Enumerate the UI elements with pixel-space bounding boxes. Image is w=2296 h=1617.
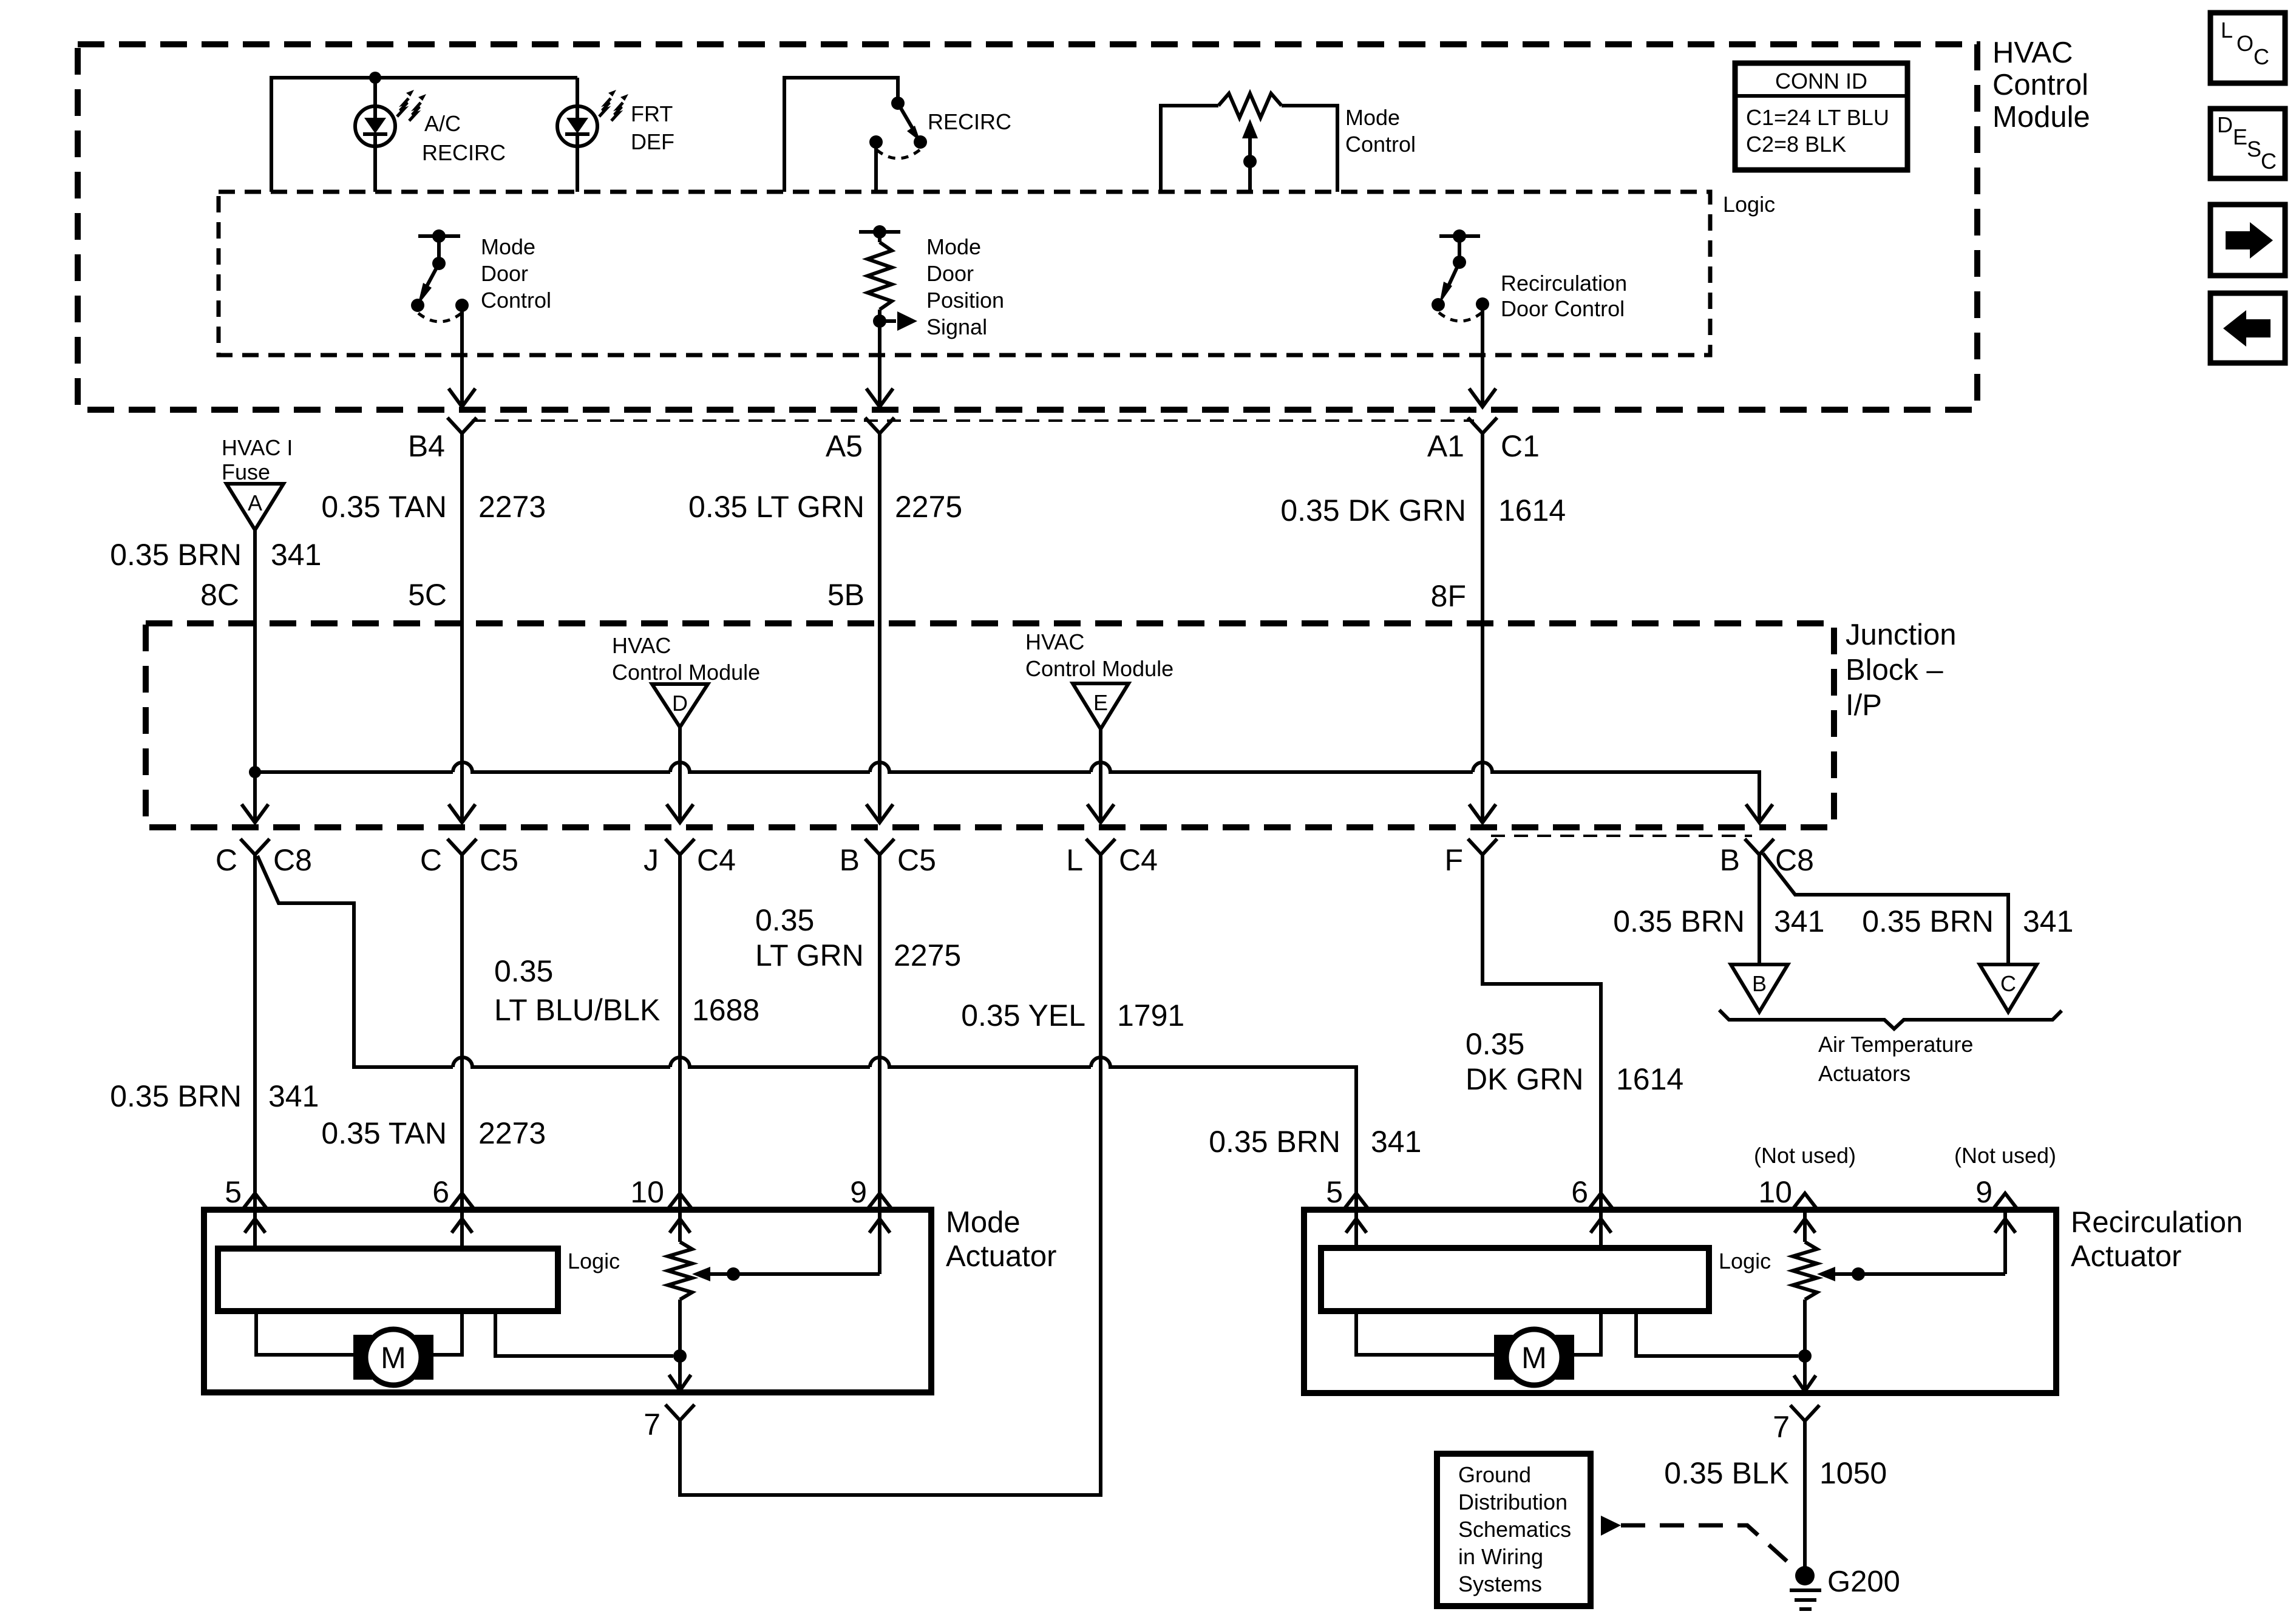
Junction Block dashed box — [146, 623, 1834, 827]
svg-text:C4: C4 — [697, 843, 736, 877]
svg-text:2275: 2275 — [895, 490, 962, 524]
Mode Actuator box — [204, 1210, 931, 1392]
triangle B — [1731, 964, 1788, 1012]
svg-text:Actuators: Actuators — [1818, 1061, 1911, 1086]
svg-text:J: J — [644, 843, 659, 877]
svg-text:5B: 5B — [827, 578, 864, 612]
recirc actuator potentiometer — [1793, 1242, 1817, 1300]
svg-text:0.35 YEL: 0.35 YEL — [961, 998, 1085, 1032]
svg-text:0.35 TAN: 0.35 TAN — [321, 1116, 447, 1150]
svg-text:Logic: Logic — [1723, 192, 1775, 217]
svg-text:M: M — [381, 1341, 406, 1375]
wire C8 through junction block — [253, 772, 257, 819]
svg-text:LT GRN: LT GRN — [755, 938, 864, 972]
svg-text:0.35 BRN: 0.35 BRN — [110, 1079, 242, 1113]
svg-text:C2=8 BLK: C2=8 BLK — [1746, 132, 1846, 157]
mode pot ground wire — [678, 1356, 682, 1389]
svg-text:Position: Position — [926, 288, 1004, 313]
svg-text:0.35 BRN: 0.35 BRN — [1613, 904, 1745, 938]
svg-text:Air Temperature: Air Temperature — [1818, 1032, 1973, 1057]
svg-text:C: C — [216, 843, 237, 877]
RECIRC switch — [891, 97, 905, 110]
svg-text:DK GRN: DK GRN — [1466, 1062, 1583, 1096]
svg-text:Recirculation: Recirculation — [2071, 1206, 2243, 1239]
svg-text:HVAC: HVAC — [1025, 629, 1084, 654]
Mode Door Control switch — [418, 234, 460, 238]
svg-text:8F: 8F — [1431, 579, 1466, 613]
air temperature actuators brace — [1719, 1010, 2062, 1029]
Recirculation Door Control switch — [1439, 234, 1480, 238]
svg-text:Logic: Logic — [568, 1249, 620, 1273]
recirc pot ground wire — [1803, 1356, 1807, 1390]
svg-text:Logic: Logic — [1719, 1249, 1771, 1273]
svg-text:F: F — [1444, 843, 1463, 877]
svg-text:5: 5 — [1326, 1175, 1343, 1209]
connector B C8 (right) — [1745, 839, 1774, 855]
svg-text:Door: Door — [481, 261, 528, 286]
svg-text:HVAC I: HVAC I — [222, 435, 293, 460]
wire 0.35 DK GRN 1614 (A1 to junction block) — [1481, 432, 1484, 772]
RECIRC switch feed wire — [784, 78, 898, 192]
wire 0.35 YEL 1791 (C4 to mode actuator pin 7) — [680, 853, 1101, 1495]
LOC box — [2210, 13, 2285, 83]
svg-text:Module: Module — [1992, 101, 2090, 134]
connector J C4 — [665, 839, 695, 855]
svg-text:8C: 8C — [200, 578, 239, 612]
svg-text:C: C — [2254, 44, 2269, 69]
wire C4 (E) through junction block — [1099, 772, 1102, 819]
svg-text:9: 9 — [1975, 1175, 1992, 1209]
ground reference dashed arrow — [1601, 1516, 1621, 1536]
svg-text:341: 341 — [268, 1079, 319, 1113]
svg-text:341: 341 — [1371, 1125, 1421, 1159]
svg-text:B: B — [840, 843, 860, 877]
svg-text:0.35 BRN: 0.35 BRN — [1209, 1125, 1340, 1159]
wire 0.35 BRN 341 (fuse to junction block) — [253, 530, 257, 772]
svg-text:C: C — [420, 843, 442, 877]
triangle D — [652, 684, 708, 727]
recirc motor — [1494, 1335, 1513, 1380]
svg-text:C5: C5 — [897, 843, 936, 877]
svg-text:C5: C5 — [480, 843, 518, 877]
HVAC Control Module outer dashed box — [78, 44, 1977, 410]
bus junction dot — [249, 766, 261, 778]
svg-text:CONN ID: CONN ID — [1775, 69, 1867, 93]
wire 0.35 DK GRN 1614 (F to recirc actuator pin 6) — [1483, 853, 1601, 1210]
svg-text:C1: C1 — [1501, 429, 1540, 463]
svg-text:1614: 1614 — [1498, 493, 1566, 527]
svg-text:1688: 1688 — [692, 993, 759, 1027]
svg-text:C8: C8 — [273, 843, 312, 877]
svg-text:LT BLU/BLK: LT BLU/BLK — [494, 993, 660, 1027]
connector A1 C1 — [1468, 418, 1497, 433]
CONN ID table — [1735, 63, 1907, 170]
svg-text:7: 7 — [1773, 1410, 1790, 1444]
connector F — [1468, 839, 1497, 855]
svg-text:D: D — [2217, 112, 2233, 137]
svg-text:1614: 1614 — [1616, 1062, 1683, 1096]
svg-text:10: 10 — [1758, 1175, 1792, 1209]
svg-text:Control Module: Control Module — [612, 660, 760, 685]
svg-text:0.35 BLK: 0.35 BLK — [1664, 1456, 1789, 1490]
svg-text:(Not used): (Not used) — [1954, 1143, 2056, 1168]
svg-text:C8: C8 — [1775, 843, 1814, 877]
svg-text:Mode: Mode — [481, 234, 535, 259]
svg-text:M: M — [1521, 1341, 1547, 1375]
svg-text:C: C — [2261, 149, 2277, 174]
wire 0.35 TAN 2273 (B4 to junction block) — [460, 432, 464, 772]
Mode Control potentiometer — [1161, 106, 1218, 192]
wire 0.35 BLK 1050 (recirc pin 7 to G200) — [1803, 1420, 1807, 1567]
svg-text:341: 341 — [271, 538, 321, 572]
wire 0.35 LT BLU/BLK 1688 (C4 to mode actuator pin 10) — [678, 853, 682, 1210]
connector B C5 — [865, 839, 894, 855]
svg-text:RECIRC: RECIRC — [928, 109, 1011, 134]
svg-text:C1=24 LT BLU: C1=24 LT BLU — [1746, 105, 1889, 130]
svg-text:6: 6 — [1571, 1175, 1588, 1209]
ground G200 symbol — [1795, 1566, 1815, 1585]
svg-text:HVAC: HVAC — [1992, 36, 2073, 69]
svg-text:Control Module: Control Module — [1025, 656, 1173, 681]
Mode Door Position Signal resistor — [859, 230, 900, 234]
svg-text:O: O — [2237, 31, 2254, 56]
wire 0.35 BRN 341 (C8 to mode actuator pin 5) — [253, 853, 257, 1210]
wire triangle D to bus — [678, 727, 682, 772]
svg-text:C4: C4 — [1119, 843, 1158, 877]
mode pot bottom junction — [673, 1349, 687, 1363]
mode motor return wire — [495, 1311, 673, 1356]
svg-text:0.35 TAN: 0.35 TAN — [321, 490, 447, 524]
module connector strip (thin dashed) — [472, 419, 1474, 422]
svg-text:1791: 1791 — [1117, 998, 1184, 1032]
connector L C4 — [1086, 839, 1115, 855]
svg-text:Control: Control — [1345, 132, 1416, 157]
svg-text:0.35: 0.35 — [1466, 1027, 1524, 1061]
svg-text:0.35 DK GRN: 0.35 DK GRN — [1280, 493, 1466, 527]
recirc pot bottom junction — [1798, 1349, 1812, 1363]
svg-text:Schematics: Schematics — [1458, 1517, 1571, 1542]
wire mode door position to A5 — [878, 321, 881, 405]
svg-text:B: B — [1720, 843, 1740, 877]
svg-text:Mode: Mode — [1345, 105, 1400, 130]
svg-text:Control: Control — [481, 288, 551, 313]
fuse triangle A — [226, 484, 284, 530]
back arrow box — [2210, 293, 2285, 363]
wire recirc door control to A1 — [1481, 304, 1484, 405]
svg-text:Block –: Block – — [1846, 654, 1943, 686]
mode pot wiper — [699, 1272, 880, 1276]
svg-text:B4: B4 — [408, 429, 445, 463]
wire LED supply rail — [271, 78, 577, 192]
wire 0.35 BRN 341 branch (C8 to recirc actuator pin 5) — [257, 856, 1356, 1210]
svg-text:DEF: DEF — [631, 129, 674, 154]
svg-text:FRT: FRT — [631, 101, 673, 126]
wire 0.35 TAN 2273 (C5 to mode actuator pin 6) — [460, 853, 464, 1210]
svg-text:9: 9 — [850, 1175, 867, 1209]
svg-text:Actuator: Actuator — [2071, 1240, 2181, 1273]
mode pin 7 connector — [665, 1405, 695, 1420]
svg-text:5C: 5C — [408, 578, 447, 612]
wire F through junction block — [1481, 772, 1484, 819]
junction block bus wire — [255, 762, 1759, 821]
svg-text:A1: A1 — [1427, 429, 1464, 463]
wire B C8 to triangle B — [1758, 853, 1761, 964]
svg-text:Actuator: Actuator — [946, 1240, 1056, 1273]
svg-text:1050: 1050 — [1819, 1456, 1887, 1490]
svg-text:2275: 2275 — [894, 938, 961, 972]
svg-text:in Wiring: in Wiring — [1458, 1544, 1543, 1569]
svg-text:HVAC: HVAC — [612, 633, 671, 658]
svg-text:C: C — [2000, 971, 2016, 996]
svg-text:2273: 2273 — [478, 490, 546, 524]
svg-text:Junction: Junction — [1846, 619, 1957, 651]
junction block connector strip left (thin dashed) — [1491, 835, 1752, 837]
forward arrow box — [2210, 205, 2285, 276]
DESC box — [2210, 109, 2285, 178]
recirc motor return wire — [1636, 1311, 1798, 1356]
wire B C8 branch to triangle C — [1763, 853, 2008, 964]
svg-text:2273: 2273 — [478, 1116, 546, 1150]
Ground Distribution Schematics box — [1437, 1454, 1591, 1606]
svg-text:341: 341 — [1774, 904, 1824, 938]
svg-text:I/P: I/P — [1846, 689, 1882, 722]
wire mode door control to B4 — [460, 305, 464, 405]
svg-text:0.35: 0.35 — [755, 903, 814, 937]
svg-text:G200: G200 — [1827, 1565, 1900, 1598]
svg-text:0.35 BRN: 0.35 BRN — [110, 538, 242, 572]
Recirculation Actuator box — [1304, 1210, 2056, 1393]
mode actuator potentiometer — [668, 1242, 692, 1300]
svg-text:0.35 LT GRN: 0.35 LT GRN — [688, 490, 864, 524]
svg-text:Control: Control — [1992, 69, 2088, 101]
recirc motor right wire — [1574, 1311, 1601, 1355]
mode motor right wire — [433, 1311, 462, 1355]
svg-text:Ground: Ground — [1458, 1462, 1531, 1487]
svg-text:10: 10 — [630, 1175, 664, 1209]
svg-text:RECIRC: RECIRC — [422, 140, 506, 165]
recirc pin 7 connector — [1790, 1405, 1819, 1421]
connector C C8 — [240, 839, 270, 855]
connector C C5 — [447, 839, 477, 855]
svg-text:341: 341 — [2023, 904, 2073, 938]
wire B C8 exit arrow — [1746, 804, 1773, 822]
LED A/C RECIRC — [355, 106, 395, 146]
wire 0.35 LT GRN 2275 (A5 to junction block) — [878, 432, 881, 772]
wire C4 (D) through junction block — [678, 772, 682, 819]
svg-text:Door Control: Door Control — [1501, 296, 1625, 321]
junction node on rail — [369, 72, 381, 84]
svg-text:5: 5 — [225, 1175, 242, 1209]
svg-text:B: B — [1752, 971, 1767, 996]
wire C5 through junction block — [460, 772, 464, 819]
connector A5 — [865, 418, 894, 433]
svg-text:L: L — [2221, 18, 2233, 42]
svg-text:Fuse: Fuse — [222, 459, 270, 484]
svg-text:(Not used): (Not used) — [1754, 1143, 1856, 1168]
svg-text:S: S — [2247, 137, 2261, 161]
wire 0.35 LT GRN 2275 (C5 to mode actuator pin 9) — [878, 853, 881, 1210]
recirc pot wiper — [1824, 1272, 2005, 1276]
triangle E — [1073, 683, 1129, 729]
triangle C — [1980, 964, 2037, 1012]
connector B4 — [447, 418, 477, 433]
svg-text:A/C: A/C — [424, 111, 461, 136]
svg-text:L: L — [1066, 843, 1083, 877]
svg-text:Mode: Mode — [926, 234, 981, 259]
svg-text:Systems: Systems — [1458, 1571, 1542, 1596]
svg-text:Mode: Mode — [946, 1206, 1021, 1239]
svg-text:Recirculation: Recirculation — [1501, 271, 1627, 296]
svg-text:A5: A5 — [826, 429, 863, 463]
mode motor left wire — [256, 1311, 353, 1355]
svg-text:A: A — [248, 490, 262, 515]
svg-text:Distribution: Distribution — [1458, 1490, 1567, 1514]
wire triangle E to bus — [1099, 729, 1102, 772]
Mode Actuator logic box — [218, 1249, 558, 1311]
svg-text:Signal: Signal — [926, 314, 987, 339]
LED FRT DEF — [557, 106, 597, 146]
wire C5 (B) through junction block — [878, 772, 881, 819]
svg-text:E: E — [1093, 690, 1108, 715]
Recirculation Actuator logic box — [1321, 1248, 1709, 1311]
svg-text:6: 6 — [432, 1175, 449, 1209]
svg-text:0.35 BRN: 0.35 BRN — [1862, 904, 1994, 938]
recirc motor left wire — [1356, 1311, 1494, 1355]
svg-text:7: 7 — [644, 1408, 661, 1442]
mode motor — [353, 1335, 372, 1380]
Logic box (module internal dashed) — [219, 192, 1710, 355]
svg-text:Door: Door — [926, 261, 974, 286]
svg-text:0.35: 0.35 — [494, 954, 553, 988]
svg-text:E: E — [2233, 124, 2247, 149]
svg-text:D: D — [672, 691, 688, 716]
